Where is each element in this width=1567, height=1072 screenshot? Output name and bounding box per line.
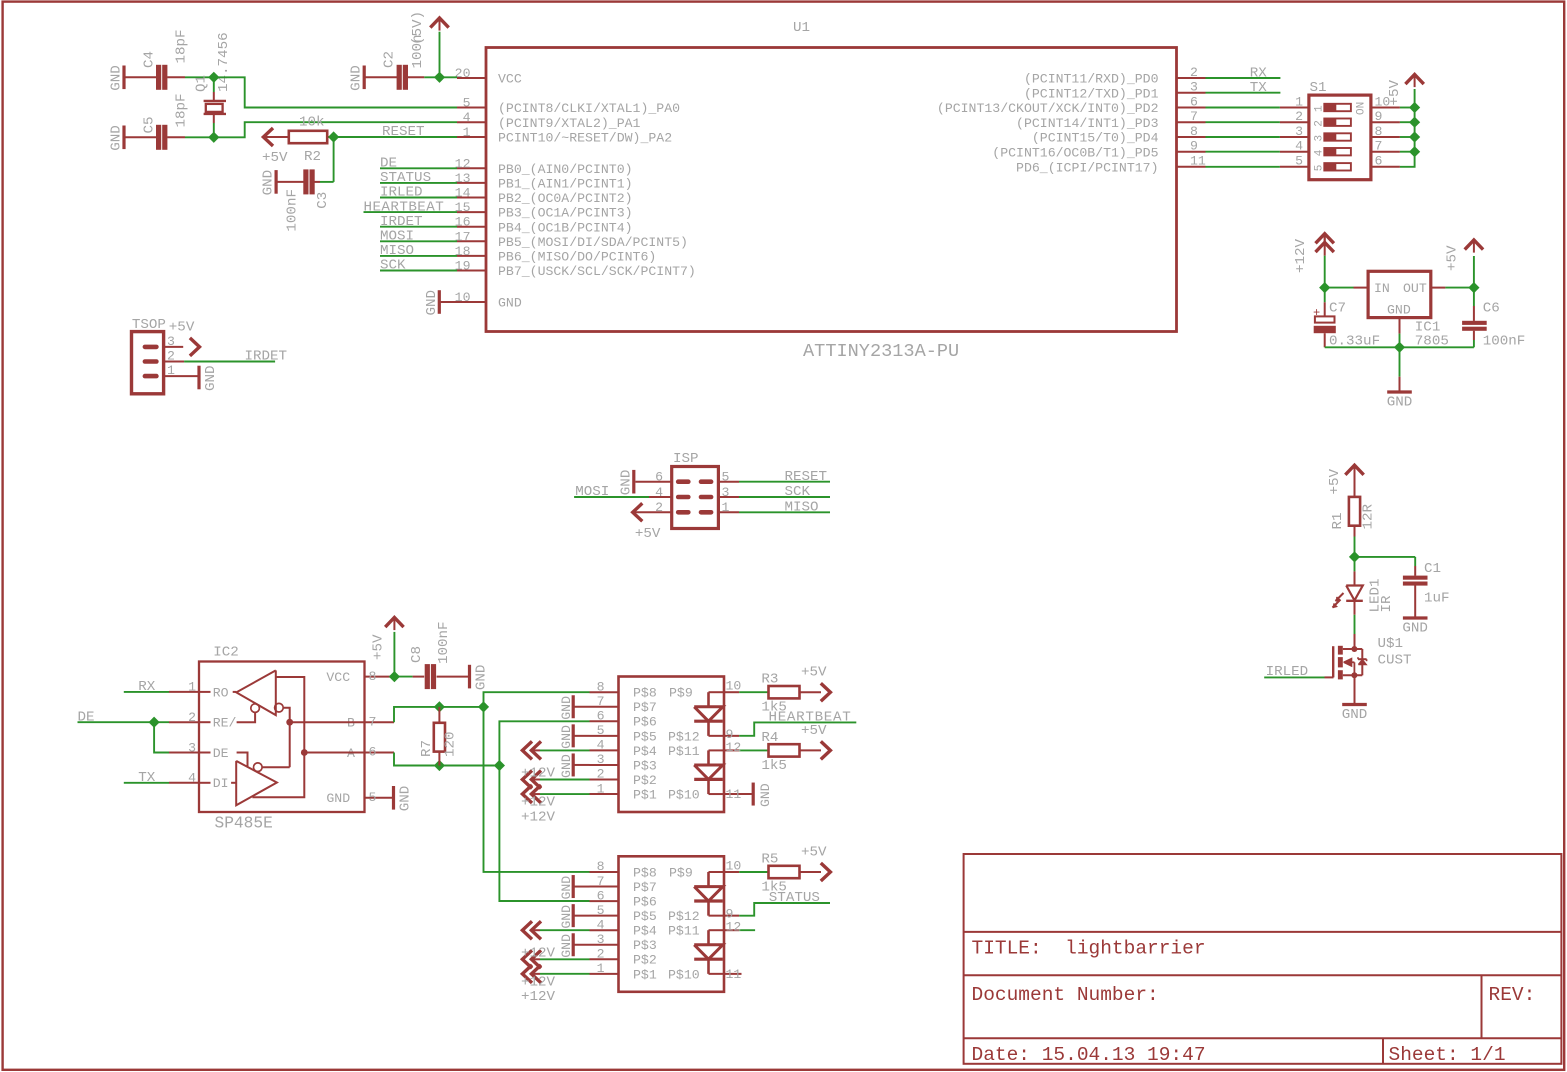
- svg-text:R3: R3: [761, 672, 778, 688]
- svg-text:RX: RX: [1250, 65, 1268, 81]
- svg-text:RX: RX: [138, 679, 156, 695]
- svg-text:P$5: P$5: [633, 909, 657, 924]
- svg-text:PB4_(OC1B/PCINT4): PB4_(OC1B/PCINT4): [498, 220, 633, 235]
- svg-text:10: 10: [455, 290, 471, 305]
- svg-text:8: 8: [597, 679, 605, 694]
- svg-text:R5: R5: [761, 852, 778, 868]
- svg-text:C4: C4: [142, 51, 158, 68]
- svg-text:(PCINT14/INT1)_PD3: (PCINT14/INT1)_PD3: [1016, 116, 1159, 131]
- svg-text:P$2: P$2: [633, 773, 657, 788]
- svg-text:C5: C5: [142, 116, 158, 133]
- svg-text:+5V: +5V: [1445, 245, 1461, 271]
- svg-text:GND: GND: [498, 296, 522, 311]
- svg-text:2: 2: [1314, 120, 1326, 127]
- svg-text:Q1: Q1: [194, 75, 210, 92]
- svg-text:IRDET: IRDET: [380, 214, 423, 230]
- svg-text:TX: TX: [1250, 80, 1268, 96]
- svg-text:(PCINT15/T0)_PD4: (PCINT15/T0)_PD4: [1032, 131, 1159, 146]
- svg-text:DI: DI: [213, 776, 229, 791]
- svg-text:ISP: ISP: [673, 451, 699, 467]
- svg-text:P$6: P$6: [633, 715, 657, 730]
- svg-text:8: 8: [1190, 124, 1198, 139]
- svg-text:VCC: VCC: [326, 670, 350, 685]
- svg-text:(PCINT11/RXD)_PD0: (PCINT11/RXD)_PD0: [1024, 72, 1159, 87]
- svg-text:GND: GND: [618, 470, 634, 496]
- svg-text:+5V: +5V: [801, 845, 827, 861]
- svg-text:C3: C3: [315, 192, 331, 209]
- svg-text:+5V: +5V: [262, 150, 288, 166]
- svg-text:+: +: [1313, 306, 1320, 320]
- svg-text:C6: C6: [1483, 301, 1500, 317]
- svg-text:PD6_(ICPI/PCINT17): PD6_(ICPI/PCINT17): [1016, 160, 1158, 175]
- svg-text:P$9: P$9: [669, 865, 693, 880]
- svg-text:P$3: P$3: [633, 758, 657, 773]
- svg-text:TSOP: TSOP: [132, 317, 166, 333]
- svg-text:6: 6: [597, 888, 605, 903]
- svg-text:Date: 15.04.13 19:47: Date: 15.04.13 19:47: [972, 1044, 1206, 1066]
- svg-text:2: 2: [1295, 109, 1303, 124]
- svg-text:+5V: +5V: [371, 634, 387, 660]
- svg-text:GND: GND: [109, 125, 125, 151]
- svg-text:4: 4: [188, 771, 196, 786]
- svg-text:4: 4: [463, 110, 471, 125]
- svg-text:(PCINT9/XTAL2)_PA1: (PCINT9/XTAL2)_PA1: [498, 116, 641, 131]
- svg-text:5: 5: [597, 903, 605, 918]
- svg-text:4: 4: [1314, 149, 1326, 156]
- svg-text:PB1_(AIN1/PCINT1): PB1_(AIN1/PCINT1): [498, 177, 633, 192]
- svg-text:MISO: MISO: [380, 243, 414, 259]
- svg-text:GND: GND: [203, 365, 219, 391]
- svg-text:GND: GND: [109, 65, 125, 91]
- svg-text:MOSI: MOSI: [380, 229, 414, 245]
- svg-text:STATUS: STATUS: [769, 890, 820, 906]
- svg-text:7: 7: [369, 714, 377, 729]
- svg-text:+12V: +12V: [521, 945, 556, 961]
- svg-text:P$4: P$4: [633, 924, 657, 939]
- svg-text:7: 7: [1375, 139, 1383, 154]
- svg-text:(5V): (5V): [410, 11, 426, 45]
- svg-text:+12V: +12V: [1293, 238, 1309, 273]
- svg-text:DE: DE: [213, 746, 229, 761]
- svg-text:U1: U1: [793, 20, 810, 36]
- svg-text:SCK: SCK: [380, 258, 406, 274]
- svg-text:IN: IN: [1374, 281, 1390, 296]
- svg-text:IRLED: IRLED: [1266, 664, 1309, 680]
- svg-text:1: 1: [597, 781, 605, 796]
- svg-text:P$11: P$11: [668, 744, 700, 759]
- svg-text:OUT: OUT: [1403, 281, 1427, 296]
- svg-text:P$7: P$7: [633, 880, 657, 895]
- svg-text:8: 8: [1375, 124, 1383, 139]
- svg-text:20: 20: [455, 66, 471, 81]
- svg-text:GND: GND: [559, 876, 574, 900]
- svg-text:TX: TX: [138, 770, 156, 786]
- svg-text:P$11: P$11: [668, 924, 700, 939]
- svg-text:+5V: +5V: [801, 723, 827, 739]
- svg-text:1: 1: [463, 125, 471, 140]
- svg-text:RE/: RE/: [213, 716, 237, 731]
- svg-text:SCK: SCK: [785, 484, 811, 500]
- svg-text:PB5_(MOSI/DI/SDA/PCINT5): PB5_(MOSI/DI/SDA/PCINT5): [498, 235, 688, 250]
- svg-text:IC2: IC2: [213, 645, 239, 661]
- svg-text:P$1: P$1: [633, 787, 657, 802]
- svg-text:6: 6: [369, 745, 377, 760]
- svg-text:9: 9: [1190, 139, 1198, 154]
- svg-text:+12V: +12V: [521, 766, 556, 782]
- svg-text:18pF: 18pF: [174, 29, 190, 63]
- svg-text:P$10: P$10: [668, 967, 700, 982]
- svg-text:(PCINT13/CKOUT/XCK/INT0)_PD2: (PCINT13/CKOUT/XCK/INT0)_PD2: [937, 101, 1159, 116]
- svg-text:5: 5: [597, 723, 605, 738]
- svg-text:P$2: P$2: [633, 953, 657, 968]
- svg-text:13: 13: [455, 171, 471, 186]
- svg-text:R7: R7: [419, 740, 435, 757]
- svg-text:Document Number:: Document Number:: [972, 984, 1159, 1006]
- svg-text:R4: R4: [761, 730, 778, 746]
- svg-text:P$7: P$7: [633, 700, 657, 715]
- svg-text:15: 15: [455, 200, 471, 215]
- svg-text:8: 8: [597, 859, 605, 874]
- svg-text:1: 1: [1295, 94, 1303, 109]
- svg-text:C8: C8: [409, 646, 425, 663]
- svg-text:P$3: P$3: [633, 938, 657, 953]
- svg-text:GND: GND: [398, 786, 414, 812]
- svg-text:R2: R2: [304, 149, 321, 165]
- svg-text:GND: GND: [474, 665, 490, 691]
- svg-text:1: 1: [188, 680, 196, 695]
- svg-text:12: 12: [455, 156, 471, 171]
- svg-text:+5V: +5V: [1327, 468, 1343, 494]
- svg-text:GND: GND: [349, 65, 365, 91]
- svg-text:GND: GND: [559, 696, 574, 720]
- svg-text:11: 11: [1190, 154, 1206, 169]
- svg-text:3: 3: [597, 932, 605, 947]
- svg-text:3: 3: [1314, 135, 1326, 142]
- svg-text:RO: RO: [213, 685, 229, 700]
- svg-text:+5V: +5V: [1387, 79, 1403, 105]
- svg-text:PB3_(OC1A/PCINT3): PB3_(OC1A/PCINT3): [498, 206, 633, 221]
- svg-text:MOSI: MOSI: [575, 484, 609, 500]
- svg-text:+5V: +5V: [169, 319, 195, 335]
- svg-text:7: 7: [1190, 109, 1198, 124]
- svg-text:REV:: REV:: [1489, 984, 1536, 1006]
- svg-text:5: 5: [1295, 154, 1303, 169]
- svg-text:+5V: +5V: [635, 526, 661, 542]
- svg-text:P$8: P$8: [633, 865, 657, 880]
- svg-text:100nF: 100nF: [436, 621, 452, 664]
- svg-text:14.7456: 14.7456: [216, 32, 232, 92]
- svg-text:16: 16: [455, 215, 471, 230]
- svg-text:GND: GND: [758, 783, 773, 807]
- svg-text:P$12: P$12: [668, 729, 700, 744]
- svg-text:2: 2: [188, 710, 196, 725]
- svg-text:4: 4: [597, 917, 605, 932]
- svg-text:GND: GND: [559, 934, 574, 958]
- svg-text:GND: GND: [559, 905, 574, 929]
- svg-text:GND: GND: [1387, 303, 1411, 318]
- svg-text:2: 2: [597, 767, 605, 782]
- svg-text:GND: GND: [424, 290, 440, 316]
- svg-text:GND: GND: [559, 754, 574, 778]
- svg-text:P$8: P$8: [633, 686, 657, 701]
- svg-text:P$1: P$1: [633, 967, 657, 982]
- svg-text:P$5: P$5: [633, 729, 657, 744]
- svg-text:18: 18: [455, 244, 471, 259]
- svg-text:TITLE: lightbarrier: TITLE: lightbarrier: [972, 938, 1206, 960]
- svg-text:3: 3: [1190, 80, 1198, 95]
- svg-text:12R: 12R: [1361, 503, 1377, 529]
- svg-text:120: 120: [443, 731, 459, 757]
- svg-text:19: 19: [455, 259, 471, 274]
- svg-text:C2: C2: [382, 51, 398, 68]
- svg-text:P$12: P$12: [668, 909, 700, 924]
- svg-text:12: 12: [726, 740, 742, 755]
- svg-text:7: 7: [597, 694, 605, 709]
- svg-text:VCC: VCC: [498, 72, 522, 87]
- svg-text:17: 17: [455, 229, 471, 244]
- svg-text:2: 2: [597, 947, 605, 962]
- svg-text:HEARTBEAT: HEARTBEAT: [364, 199, 445, 215]
- svg-text:(PCINT12/TXD)_PD1: (PCINT12/TXD)_PD1: [1024, 86, 1159, 101]
- svg-text:1: 1: [1314, 105, 1326, 112]
- svg-text:6: 6: [1375, 154, 1383, 169]
- svg-text:3: 3: [1295, 124, 1303, 139]
- svg-text:4: 4: [597, 738, 605, 753]
- svg-text:S1: S1: [1310, 80, 1327, 96]
- svg-text:C1: C1: [1424, 561, 1441, 577]
- svg-text:GND: GND: [559, 725, 574, 749]
- svg-text:P$6: P$6: [633, 895, 657, 910]
- svg-text:GND: GND: [1402, 621, 1428, 637]
- svg-text:4: 4: [1295, 139, 1303, 154]
- svg-text:GND: GND: [326, 791, 350, 806]
- svg-text:RESET: RESET: [785, 469, 828, 485]
- svg-text:14: 14: [455, 186, 471, 201]
- svg-text:PB7_(USCK/SCL/SCK/PCINT7): PB7_(USCK/SCL/SCK/PCINT7): [498, 264, 696, 279]
- svg-text:P$10: P$10: [668, 787, 700, 802]
- svg-text:11: 11: [726, 787, 742, 802]
- svg-text:P$9: P$9: [669, 686, 693, 701]
- svg-text:IR: IR: [1379, 595, 1395, 613]
- svg-text:IRLED: IRLED: [380, 185, 423, 201]
- svg-text:PCINT10/~RESET/DW)_PA2: PCINT10/~RESET/DW)_PA2: [498, 131, 672, 146]
- svg-text:RESET: RESET: [382, 124, 425, 140]
- svg-text:U$1: U$1: [1378, 636, 1404, 652]
- svg-text:ATTINY2313A-PU: ATTINY2313A-PU: [803, 341, 959, 362]
- svg-text:100nF: 100nF: [284, 189, 300, 232]
- svg-text:Sheet: 1/1: Sheet: 1/1: [1389, 1044, 1506, 1066]
- svg-text:8: 8: [369, 669, 377, 684]
- svg-text:ON: ON: [1356, 102, 1368, 115]
- svg-text:(PCINT8/CLKI/XTAL1)_PA0: (PCINT8/CLKI/XTAL1)_PA0: [498, 101, 680, 116]
- svg-text:DE: DE: [78, 709, 95, 725]
- svg-text:5: 5: [369, 790, 377, 805]
- svg-text:6: 6: [1190, 94, 1198, 109]
- svg-text:5: 5: [1314, 165, 1326, 172]
- svg-text:+5V: +5V: [801, 665, 827, 681]
- svg-text:10: 10: [726, 679, 742, 694]
- svg-text:1k5: 1k5: [761, 758, 787, 774]
- svg-text:5: 5: [463, 96, 471, 111]
- svg-text:+12V: +12V: [521, 809, 556, 825]
- svg-text:10k: 10k: [299, 115, 325, 131]
- svg-text:DE: DE: [380, 156, 397, 172]
- svg-text:GND: GND: [261, 170, 277, 196]
- svg-text:MISO: MISO: [785, 500, 819, 516]
- svg-text:6: 6: [597, 709, 605, 724]
- svg-text:10: 10: [726, 859, 742, 874]
- svg-text:3: 3: [188, 740, 196, 755]
- svg-text:9: 9: [1375, 109, 1383, 124]
- svg-text:7: 7: [597, 874, 605, 889]
- svg-text:PB2_(OC0A/PCINT2): PB2_(OC0A/PCINT2): [498, 191, 633, 206]
- svg-text:CUST: CUST: [1378, 653, 1412, 669]
- svg-text:11: 11: [726, 967, 742, 982]
- svg-text:P$4: P$4: [633, 744, 657, 759]
- svg-text:GND: GND: [1342, 707, 1368, 723]
- svg-text:100nF: 100nF: [1483, 334, 1526, 350]
- svg-text:12: 12: [726, 920, 742, 935]
- svg-text:R1: R1: [1330, 512, 1346, 529]
- svg-text:IRDET: IRDET: [245, 349, 288, 365]
- svg-text:STATUS: STATUS: [380, 170, 431, 186]
- svg-text:C7: C7: [1329, 301, 1346, 317]
- svg-text:1uF: 1uF: [1424, 591, 1450, 607]
- svg-text:SP485E: SP485E: [215, 815, 273, 833]
- svg-text:PB6_(MISO/DO/PCINT6): PB6_(MISO/DO/PCINT6): [498, 250, 656, 265]
- svg-text:GND: GND: [1387, 395, 1413, 411]
- svg-text:1: 1: [597, 961, 605, 976]
- svg-text:18pF: 18pF: [174, 93, 190, 127]
- svg-text:+12V: +12V: [521, 989, 556, 1005]
- svg-text:3: 3: [597, 752, 605, 767]
- svg-text:(PCINT16/OC0B/T1)_PD5: (PCINT16/OC0B/T1)_PD5: [992, 145, 1158, 160]
- svg-text:2: 2: [1190, 65, 1198, 80]
- svg-text:PB0_(AIN0/PCINT0): PB0_(AIN0/PCINT0): [498, 162, 633, 177]
